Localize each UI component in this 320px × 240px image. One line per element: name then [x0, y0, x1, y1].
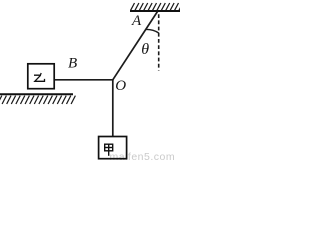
character yi inside left block [34, 73, 45, 81]
svg-text:maifen5.com: maifen5.com [110, 151, 176, 162]
ground line under left block [0, 93, 73, 95]
ground hatch [0, 96, 75, 104]
svg-text:B: B [68, 56, 77, 72]
block yi (left block on ground) [28, 64, 54, 89]
wire rope B-O horizontal [55, 79, 114, 81]
svg-text:θ: θ [141, 41, 149, 58]
dashed vertical reference line below node A [158, 14, 160, 70]
wire rope O to hanging block [112, 80, 114, 137]
svg-text:O: O [115, 78, 126, 94]
wire rope A-O diagonal [113, 12, 158, 80]
block jia (hanging block) [99, 137, 127, 159]
ceiling hatch [131, 3, 183, 10]
character jia inside hanging block [105, 144, 113, 156]
ceiling line [130, 10, 180, 12]
svg-text:A: A [131, 13, 142, 29]
angle arc theta [146, 29, 159, 33]
